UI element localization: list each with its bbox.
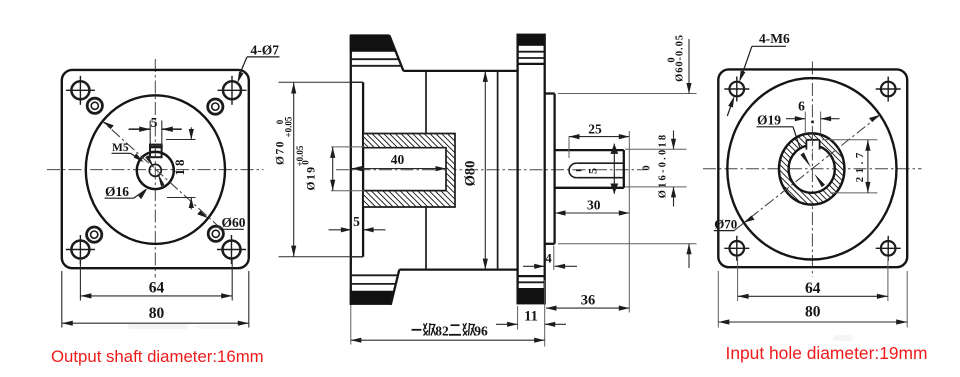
watermark ghost left <box>128 324 188 329</box>
top-left ear stripe lines <box>351 58 398 60</box>
output shaft circle Ø16 <box>137 152 174 189</box>
svg-text:36: 36 <box>581 293 596 309</box>
keyway center tick <box>576 169 582 171</box>
top-right ear side edges <box>518 34 545 64</box>
bolt hole bottom-left with crosshair <box>724 236 749 261</box>
svg-text:Ø16: Ø16 <box>105 184 129 199</box>
dimension 25 (keyway length) <box>569 136 629 158</box>
svg-text:18: 18 <box>172 157 187 176</box>
bottom-left ear slant edge <box>391 270 400 305</box>
centerline vertical (right view) <box>811 62 813 278</box>
dimension Ø80 (body) <box>484 71 486 270</box>
bolt hole bottom-right with crosshair <box>876 236 901 261</box>
dimension 64 (bolt spacing, bottom) <box>80 258 232 301</box>
label 4-Ø7 with leader <box>237 42 279 83</box>
housing joint line <box>497 71 499 270</box>
svg-text:5: 5 <box>151 115 158 130</box>
svg-text:Ø19: Ø19 <box>306 166 318 191</box>
pin hole ring bottom-right <box>208 226 223 241</box>
dimension 80 (flange width, bottom) <box>62 271 249 328</box>
svg-text:64: 64 <box>805 280 821 297</box>
bolt hole bottom-left with crosshair <box>66 235 95 264</box>
svg-text:21.7: 21.7 <box>854 149 866 182</box>
keyway width arrows on shaft <box>610 144 618 194</box>
dimension stage length (Chinese) <box>351 305 545 345</box>
svg-text:64: 64 <box>149 280 165 297</box>
dimension 5 (keyway width) <box>129 121 182 145</box>
dimension 5 (flange plate thickness) <box>329 229 386 231</box>
label Ø60 <box>220 215 246 230</box>
6-dim center dot <box>811 121 814 124</box>
keyway notch outline <box>806 140 819 150</box>
pin hole ring bottom-left <box>87 227 102 242</box>
svg-text:Ø16-0.018: Ø16-0.018 <box>658 133 669 199</box>
centerline vertical (left view) <box>154 59 156 278</box>
input hub hatched annulus <box>779 133 844 204</box>
center hole marks <box>800 152 825 187</box>
input shaft Ø16 <box>555 150 624 188</box>
dimension 36 (flange face to shaft end) <box>546 131 629 313</box>
pin hole ring top-right <box>208 99 223 114</box>
bolt hole top-right with crosshair <box>218 76 247 105</box>
plate top edge <box>351 81 363 83</box>
top-right ear: black clamp block <box>518 34 545 46</box>
dimension Ø70 (output boss) <box>279 82 364 256</box>
label 4-M6 with leader <box>727 31 790 116</box>
svg-text:11: 11 <box>524 309 538 325</box>
svg-text:+0.05: +0.05 <box>284 116 294 137</box>
svg-text:4: 4 <box>545 251 552 266</box>
svg-text:Ø70: Ø70 <box>714 216 737 231</box>
top-left ear: black clamp block <box>350 34 395 51</box>
svg-text:Output shaft diameter:16mm: Output shaft diameter:16mm <box>51 347 264 366</box>
shaft keyway slot <box>569 163 624 178</box>
svg-text:5: 5 <box>586 168 600 174</box>
dimension Ø19 (input bore) <box>331 147 365 191</box>
centerline horizontal (right view) <box>703 168 922 170</box>
dimension Ø60-0.05 (input boss dia) <box>558 94 697 244</box>
dimension 40 (bore depth) <box>351 168 446 170</box>
svg-text:96: 96 <box>474 323 488 338</box>
svg-text:40: 40 <box>391 152 405 167</box>
bolt hole bottom-right with crosshair <box>217 235 246 264</box>
svg-text:Input hole diameter:19mm: Input hole diameter:19mm <box>726 343 928 363</box>
svg-text:+0.05: +0.05 <box>295 145 305 166</box>
svg-text:4-M6: 4-M6 <box>759 31 790 46</box>
dimension 11 (input plate thickness) <box>496 280 566 347</box>
hub keyway notch white cut <box>806 141 819 153</box>
svg-text:80: 80 <box>805 304 821 321</box>
pilot boss circle Ø60 <box>86 95 225 244</box>
dimension 64 (bolt spacing, bottom) <box>738 256 888 301</box>
svg-text:25: 25 <box>588 122 602 137</box>
internal step line stage joint <box>425 71 427 270</box>
M5 tapped hole (center) <box>149 164 161 176</box>
centerline horizontal (left view) <box>47 169 264 171</box>
svg-text:0: 0 <box>667 57 678 62</box>
svg-text:80: 80 <box>149 305 165 322</box>
svg-text:Ø60: Ø60 <box>222 215 246 230</box>
bolt hole top-right with crosshair <box>876 77 901 102</box>
dimension 4 (boss depth) <box>523 246 577 271</box>
svg-text:5: 5 <box>353 214 360 229</box>
flange outline (80x80 square, rounded corners) <box>718 69 907 267</box>
plate bottom edge <box>351 256 363 258</box>
svg-text:M5: M5 <box>112 142 129 154</box>
pin hole ring top-left <box>87 98 102 113</box>
bottom-right ear stripe line <box>518 281 545 283</box>
gearbox body top edge <box>403 70 518 72</box>
centerline horizontal (middle view) <box>336 169 644 171</box>
label Ø16 with leader arrow <box>105 184 148 199</box>
input pilot boss Ø60 <box>545 94 555 244</box>
keyway (5 wide) on shaft top <box>149 145 163 158</box>
svg-text:6: 6 <box>798 99 805 114</box>
flange outline (80x80 square, rounded corners) <box>62 70 249 268</box>
bottom-right ear side edges <box>518 276 545 304</box>
dimension 18 (keyway to shaft bottom) <box>166 127 196 209</box>
top-right ear stripe lines <box>518 51 545 53</box>
dimension 30 (shaft length) <box>555 212 629 214</box>
bolt hole top-left with crosshair <box>724 77 749 102</box>
bottom-right ear: black clamp block <box>518 288 545 304</box>
svg-text:4-Ø7: 4-Ø7 <box>251 42 280 57</box>
output flange plate right face <box>362 82 364 256</box>
svg-text:Ø80: Ø80 <box>463 161 479 187</box>
hub inner hole Ø19 <box>789 145 835 193</box>
bottom-left ear stripe lines <box>351 274 398 276</box>
label Ø70 <box>714 216 738 231</box>
hub outer circle <box>779 133 844 204</box>
svg-text:82: 82 <box>435 323 449 338</box>
svg-text:0: 0 <box>642 165 653 170</box>
bottom-left ear: black clamp block <box>350 291 394 305</box>
svg-text:Ø70: Ø70 <box>275 140 287 165</box>
centerline segment through notch <box>811 133 813 157</box>
output flange left face <box>350 35 352 305</box>
label M5 with leader <box>112 142 144 162</box>
dimension Ø16-0.018 (shaft dia) <box>625 149 687 187</box>
top-left ear slant edge <box>389 35 403 71</box>
bolt hole top-left with crosshair <box>66 76 95 105</box>
Ø60 bolt-circle diagonal leader <box>103 121 221 228</box>
input flange plate <box>518 64 545 276</box>
dimension 80 (flange width, bottom) <box>718 271 907 328</box>
Ø70 diagonal leader <box>735 115 881 230</box>
hatched output bore section (C shape) <box>363 134 455 208</box>
gearbox body bottom edge <box>399 268 518 270</box>
dimension 6 (keyway width) <box>786 112 840 135</box>
watermark ghost right <box>833 335 853 341</box>
center hole marks <box>145 155 164 186</box>
svg-text:30: 30 <box>587 198 601 213</box>
pilot circle Ø70 <box>727 78 896 259</box>
svg-text:Ø19: Ø19 <box>757 112 781 127</box>
label Ø19 with leader <box>757 112 801 148</box>
dimension 21.7 (keyway depth) <box>822 140 878 193</box>
